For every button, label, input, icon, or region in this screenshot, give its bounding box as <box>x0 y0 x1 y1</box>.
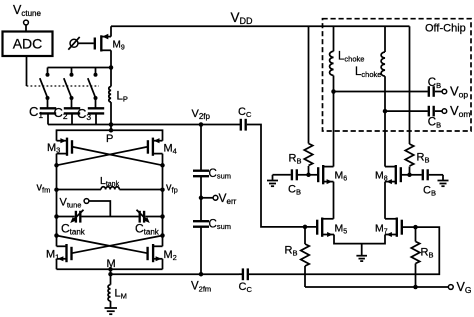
svg-text:P: P <box>106 133 113 145</box>
wire varactor bus right <box>145 216 162 218</box>
inductor Lchoke left <box>330 26 334 166</box>
capacitor CC lower <box>243 268 248 280</box>
inductor LP <box>109 68 111 125</box>
capacitor Csum upper <box>193 171 209 177</box>
wire Vfm-Vfp line <box>57 189 102 191</box>
block ADC <box>3 32 53 57</box>
wire CC upper to M5 gate <box>247 125 316 227</box>
resistor RB upper-left <box>304 144 312 166</box>
capacitor CB Vop <box>429 86 442 97</box>
junction dots varactor bus <box>54 214 59 219</box>
resistor RB lower-left <box>301 227 309 287</box>
wire ADC output <box>26 56 28 86</box>
varactor Ctank left <box>70 210 83 223</box>
transistor M9 (PMOS) <box>95 26 111 67</box>
transistor M4 (PMOS) <box>148 138 163 156</box>
capacitor CC upper <box>241 119 246 131</box>
junction dot V2fm branch <box>108 272 113 277</box>
ground CB upper-left <box>267 175 278 186</box>
wire Vtune feed <box>89 201 110 217</box>
junction dot vfp <box>160 187 165 192</box>
wire RB to M8 gate junction <box>409 167 411 175</box>
transistor M5 (NMOS) <box>317 218 334 238</box>
wire P rail <box>57 130 163 140</box>
wire RB to M6 gate junction <box>308 166 310 175</box>
junction dot Vom tap <box>383 109 388 114</box>
junction dots bottom cross <box>54 233 59 238</box>
junction dot node M <box>108 267 113 272</box>
transistor M2 (NMOS) <box>148 244 163 269</box>
wire Verr tap <box>201 197 213 199</box>
transistor M8 (NMOS) <box>385 165 401 184</box>
wire Vop line <box>334 91 428 93</box>
capacitor CB upper-left <box>273 169 309 180</box>
capacitor CB upper-right <box>410 169 444 180</box>
wire Csum column middle <box>200 176 202 221</box>
junction dot M8 gate <box>407 173 412 178</box>
varactor Ctank right <box>137 210 150 223</box>
transistor M6 (NMOS) <box>318 165 333 184</box>
wire M stub <box>110 269 112 274</box>
junction dot M9 drain bus <box>109 65 114 70</box>
junction dot V2fp <box>199 122 204 127</box>
resistor RB upper-right <box>405 144 413 166</box>
digital bus slash symbol at M9 gate <box>68 37 79 50</box>
terminal Vop <box>442 89 447 94</box>
ground M5-M7 <box>356 244 367 262</box>
capacitor C2 <box>64 108 80 124</box>
ground LM <box>105 308 118 314</box>
terminal Verr <box>213 195 218 200</box>
wire Csum column bottom <box>200 227 202 275</box>
junction dot vfm <box>54 187 59 192</box>
wire M6 gate <box>309 174 318 176</box>
transistor M1 (NMOS) <box>57 244 72 269</box>
svg-text:ADC: ADC <box>13 36 43 52</box>
wire Csum column top <box>200 125 202 171</box>
off-chip dashed box <box>323 19 472 131</box>
junction dot VG RB <box>413 285 418 290</box>
wire cross-couple M3-M4 <box>57 147 163 165</box>
wire M9 gate <box>78 42 94 44</box>
wire V2fm to M7 gate <box>249 227 439 274</box>
wire dotted control bus <box>27 85 100 87</box>
wire VDD rail <box>111 25 410 27</box>
transistor M3 (PMOS) <box>57 138 73 156</box>
junction dot M6 gate <box>306 173 311 178</box>
junction dot V2fm <box>199 272 204 277</box>
svg-text:M: M <box>107 258 116 270</box>
junction dot node P <box>109 128 114 133</box>
wire CC lower segment <box>239 273 243 275</box>
inductor LM <box>108 274 110 308</box>
wire switch top bus <box>48 67 112 69</box>
terminal VG <box>448 285 453 290</box>
svg-text:Off-Chip: Off-Chip <box>425 23 466 35</box>
transistor M7 (NMOS) <box>385 218 402 238</box>
capacitor Csum lower <box>193 221 209 227</box>
wire M bus <box>57 268 163 270</box>
wire VDD drop left <box>308 26 310 143</box>
switch S1 <box>40 68 50 109</box>
switch S3 <box>88 68 98 109</box>
wire Vctune to ADC <box>25 25 27 32</box>
wire V2fp line <box>48 124 240 126</box>
capacitor C3 <box>88 108 104 124</box>
resistor RB lower-right <box>411 227 419 287</box>
wire Vom line <box>385 110 428 112</box>
wire M6 source to M5 drain <box>333 182 335 219</box>
wire cross-couple M1-M2 <box>57 236 163 254</box>
wire M8 source to M7 drain <box>384 182 386 219</box>
wire VCO right rail <box>162 154 164 247</box>
inductor Ltank <box>101 187 119 190</box>
wire M8 gate <box>402 174 410 176</box>
wire VCO left rail <box>56 154 58 247</box>
wire M5 source to ground <box>334 235 385 244</box>
junction dot caps bus <box>109 122 114 127</box>
wire varactor bus left <box>57 216 75 218</box>
ground CB upper-right <box>438 175 449 186</box>
junction dots top cross <box>54 163 59 168</box>
junction dot Vop tap <box>331 89 336 94</box>
terminal Vom <box>442 109 447 114</box>
terminal Vtune <box>84 199 89 204</box>
capacitor CB Vom <box>429 106 442 117</box>
capacitor C1 <box>40 108 56 124</box>
wire M7 gate <box>402 226 416 228</box>
inductor Lchoke right <box>381 26 385 166</box>
wire LP to P rail <box>110 125 112 131</box>
wire VDD drop right <box>409 26 411 144</box>
terminal Vctune <box>24 20 29 25</box>
junction dot M7 gate RB <box>413 225 418 230</box>
wire V2fm line <box>111 273 240 275</box>
wire VG bus <box>305 286 448 288</box>
junction dot M5 gate RB <box>303 225 308 230</box>
switch S2 <box>64 68 74 109</box>
wire varactor bus middle <box>82 216 139 218</box>
junction dot Verr <box>199 196 204 201</box>
